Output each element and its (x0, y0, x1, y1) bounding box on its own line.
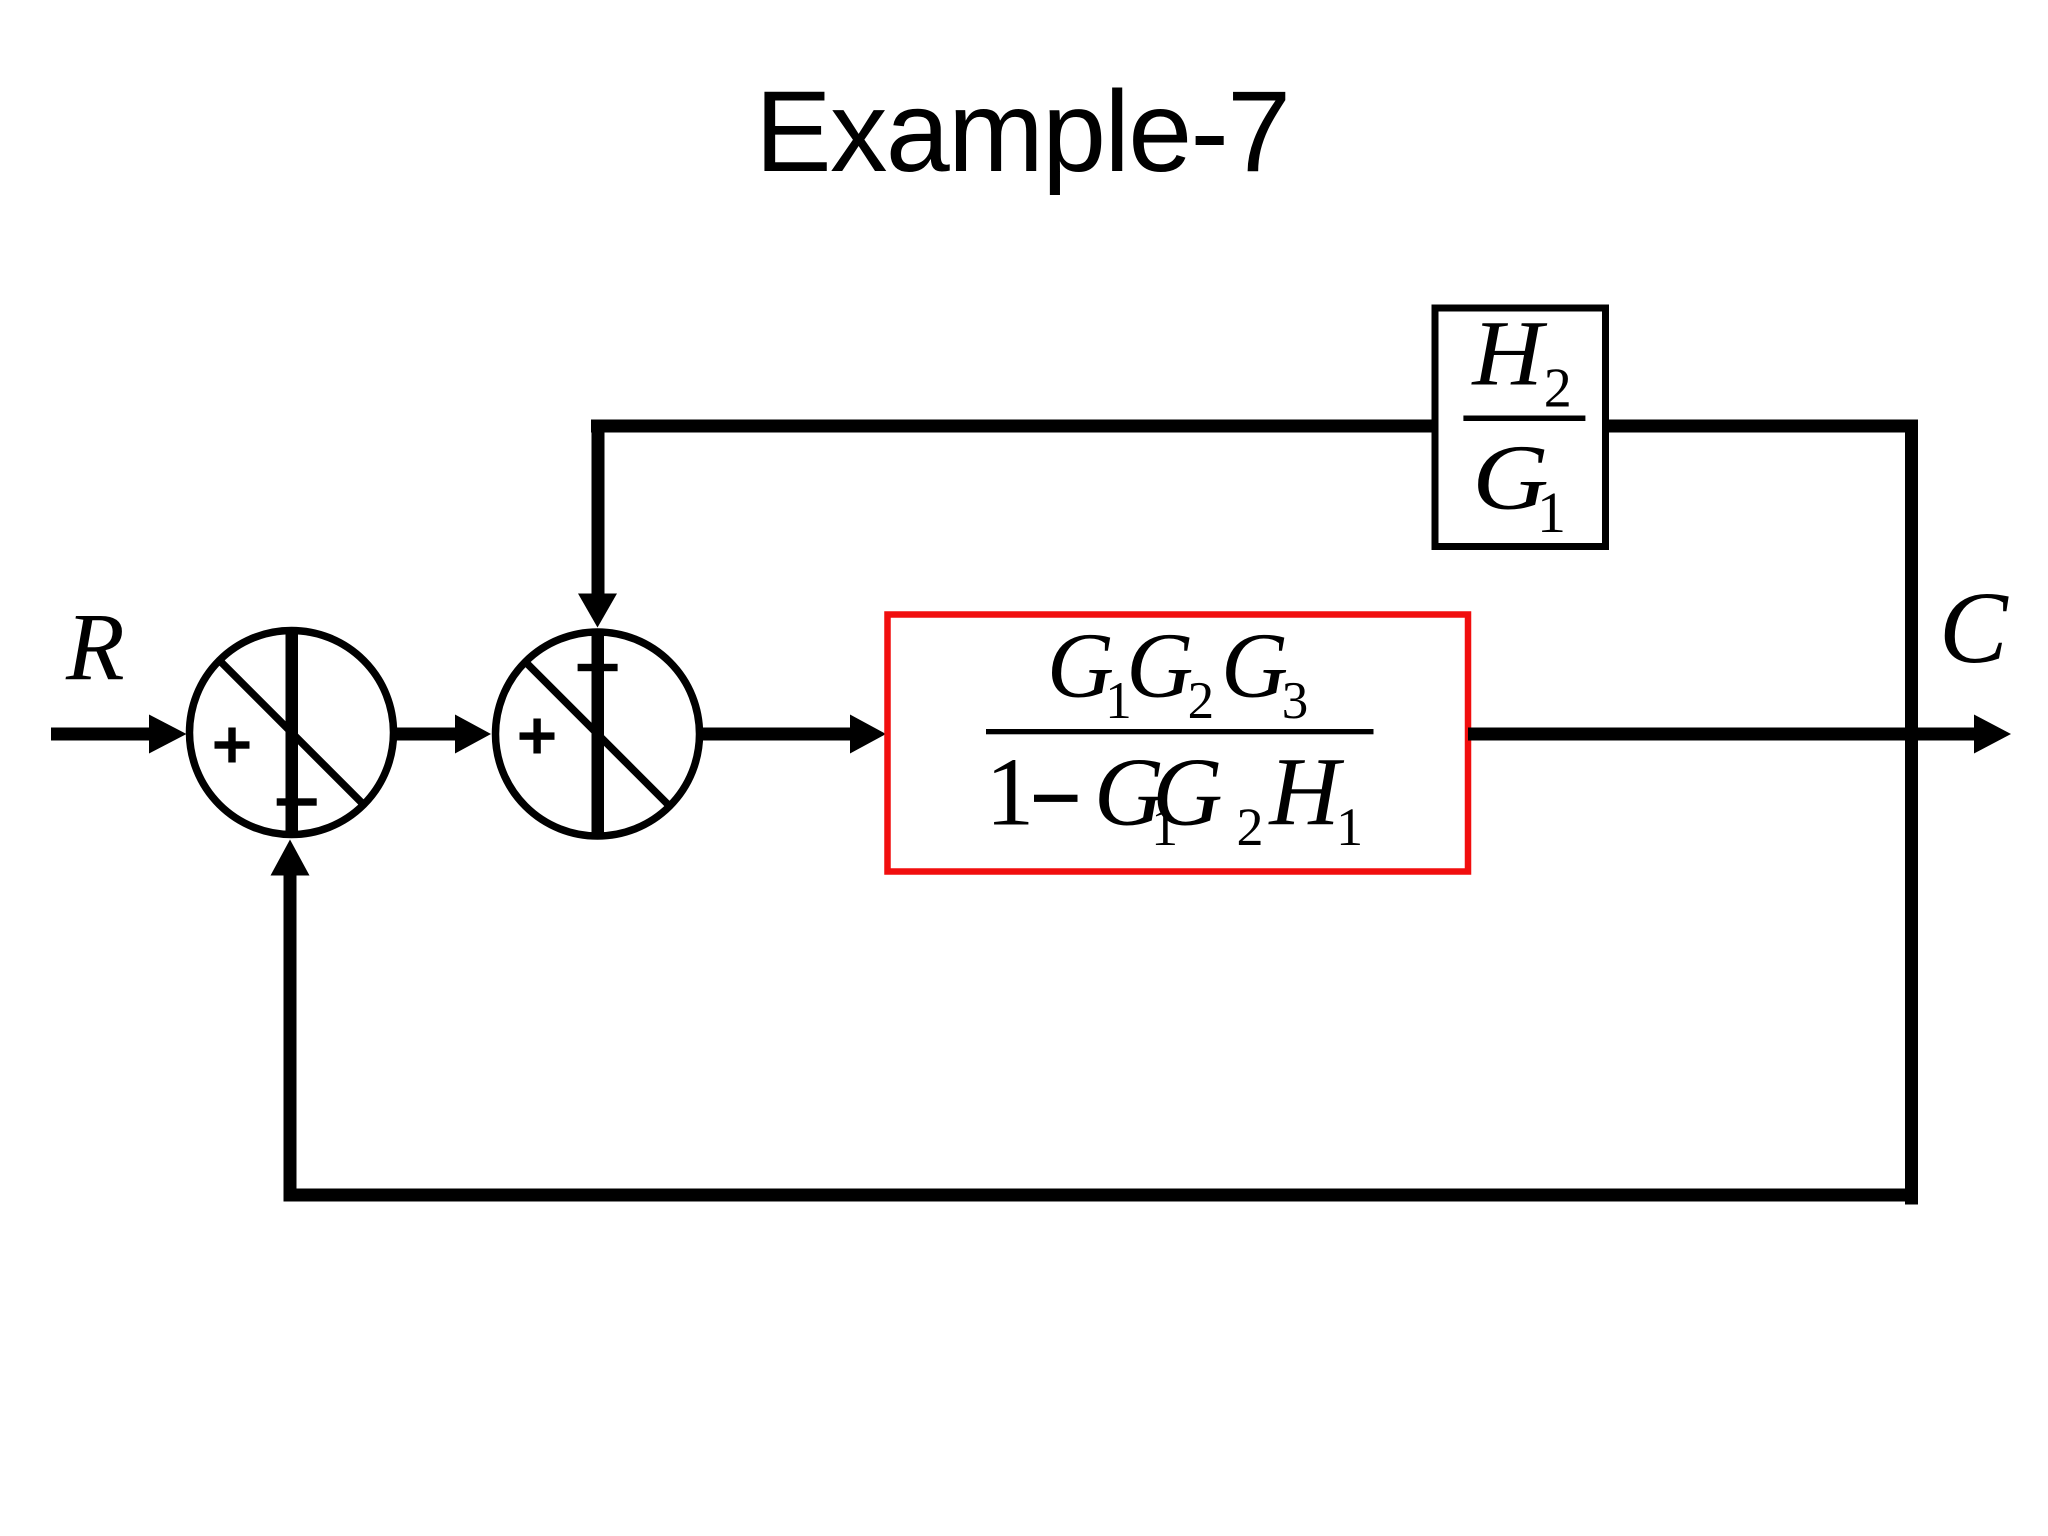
svg-text:1: 1 (1537, 480, 1566, 545)
summing junction S1 plus sign (215, 741, 250, 748)
summing junction S2 minus sign (578, 664, 618, 671)
svg-text:2: 2 (1237, 797, 1264, 857)
svg-text:G: G (1152, 739, 1222, 847)
wire left vertical up into summer S1 (284, 875, 297, 1202)
svg-text:2: 2 (1188, 672, 1215, 730)
block G denominator minus sign (1034, 795, 1078, 802)
wire output to node C (1468, 728, 1975, 741)
summing junction S1 minus sign (277, 798, 317, 805)
svg-text:H: H (1267, 739, 1344, 847)
summing junction S2 diagonal divider (524, 661, 670, 807)
block G transfer function box (red) (888, 615, 1469, 872)
svg-text:G: G (1221, 615, 1288, 718)
block G fraction bar (986, 729, 1374, 734)
arrowhead into summer S1 left (149, 715, 187, 754)
wire top feedback horizontal (summer S2 to right vertical, through block H2/G1) (591, 420, 1918, 433)
wire summer S1 to summer S2 (393, 728, 456, 741)
arrowhead into summer S1 bottom (271, 840, 310, 876)
wire input R (51, 728, 150, 741)
block H2/G1 fraction bar (1463, 416, 1585, 422)
svg-text:H: H (1470, 302, 1548, 405)
svg-text:G: G (1047, 615, 1114, 718)
summing junction S2 vertical divider (592, 629, 605, 839)
svg-text:1: 1 (986, 739, 1035, 847)
svg-text:Example-7: Example-7 (755, 68, 1289, 196)
wire bottom feedback horizontal (284, 1189, 1919, 1202)
arrowhead output C (1974, 715, 2011, 754)
summing junction S1 diagonal divider (218, 659, 364, 805)
summing junction S2 plus sign (520, 732, 555, 739)
wire summer S2 to block G (700, 728, 851, 741)
svg-text:C: C (1939, 571, 2009, 685)
wire vertical drop from top feedback into summer S2 (592, 420, 605, 594)
svg-text:2: 2 (1544, 358, 1572, 420)
summing junction S2 circle (496, 632, 700, 836)
svg-text:R: R (65, 593, 125, 700)
svg-text:G: G (1126, 615, 1193, 718)
svg-text:1: 1 (1336, 797, 1363, 857)
svg-text:3: 3 (1282, 672, 1309, 730)
arrowhead into summer S2 top (578, 594, 617, 628)
summing junction S1 vertical divider (286, 628, 299, 838)
arrowhead into block G (850, 715, 886, 754)
block H2/G1 feedback box (1435, 308, 1606, 547)
summing junction S1 circle (190, 631, 394, 835)
arrowhead into summer S2 left (455, 715, 491, 754)
wire right vertical (node C down to bottom feedback) (1905, 420, 1918, 1205)
